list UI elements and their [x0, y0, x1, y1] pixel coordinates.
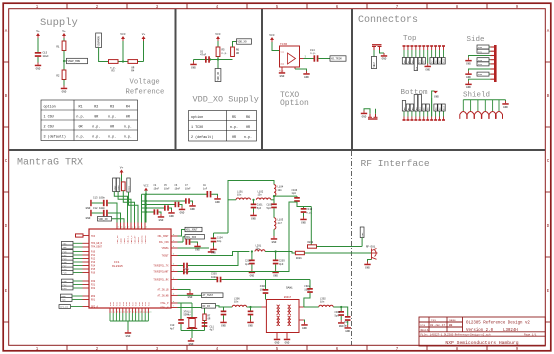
- svg-text:P16: P16: [91, 272, 96, 275]
- wire V+ to R8: [121, 175, 123, 182]
- svg-text:VSSPA: VSSPA: [162, 247, 170, 250]
- net label J1: [371, 57, 376, 69]
- svg-text:n.p.: n.p.: [76, 135, 84, 139]
- label C104 10p: [217, 237, 223, 243]
- frame row letters: [5, 30, 550, 294]
- net label XOL_XOUT: [185, 227, 202, 231]
- wire C5 to gnd: [169, 208, 172, 210]
- IC right pin names: [153, 233, 175, 310]
- label L302: [320, 297, 326, 303]
- SAW pin stubs: [262, 307, 304, 337]
- ground divider branch: [61, 86, 67, 94]
- wire nodeA right: [274, 195, 297, 197]
- wire C8 to gnd: [212, 194, 218, 196]
- wire C110 node down: [310, 207, 312, 247]
- svg-text:RX1: RX1: [91, 299, 96, 302]
- wire vlabel2 to pin: [118, 192, 131, 223]
- power VCC tcxo: [269, 34, 275, 42]
- capacitor C304: [221, 311, 227, 316]
- label L103: [278, 219, 284, 225]
- wire C101 drop: [253, 200, 255, 204]
- svg-text:47nF: 47nF: [200, 54, 207, 57]
- ground SAW left: [274, 337, 280, 345]
- svg-text:55MHz: 55MHz: [184, 314, 192, 317]
- SAW transformer left: [277, 305, 281, 326]
- wire C103 to node: [297, 202, 311, 207]
- title block text: [420, 319, 537, 346]
- svg-text:10nF: 10nF: [185, 187, 191, 190]
- ground vddxo: [190, 62, 196, 70]
- label C10: [170, 324, 175, 330]
- svg-text:GND: GND: [304, 76, 309, 79]
- svg-text:GND: GND: [466, 63, 471, 66]
- node vref mid: [122, 60, 124, 62]
- ground C309: [345, 325, 351, 333]
- wire rail drop 2: [144, 194, 146, 222]
- node A rf: [273, 195, 275, 197]
- svg-text:n.p.: n.p.: [307, 212, 313, 215]
- label C101: [257, 204, 263, 210]
- supply option table: [41, 100, 138, 141]
- wire J2 pin2: [375, 109, 377, 114]
- wire C301 top: [265, 280, 267, 290]
- svg-text:VCC: VCC: [143, 185, 148, 188]
- svg-text:VDDA: VDDA: [117, 185, 120, 191]
- wire vlabel3 to pin: [129, 192, 139, 223]
- svg-text:2: 2: [114, 311, 115, 314]
- ground tcxo 1: [279, 70, 285, 78]
- svg-text:V+: V+: [62, 30, 66, 33]
- ground J1: [381, 53, 387, 57]
- capacitor C201: [183, 263, 188, 269]
- svg-text:Reference: Reference: [126, 89, 165, 97]
- wire J2 to gnd: [364, 109, 370, 114]
- wire L201 to R201: [265, 251, 276, 253]
- wire C103 down: [296, 195, 298, 198]
- svg-text:IO4: IO4: [478, 63, 483, 66]
- wire C10 to bottom: [180, 324, 182, 331]
- wire R8 to pin: [123, 191, 134, 223]
- capacitor C6: [205, 56, 210, 62]
- wire C7 to gnd: [190, 201, 193, 203]
- node C308: [340, 306, 342, 308]
- svg-text:VDDD: VDDD: [128, 185, 131, 191]
- label R6 0R: [236, 49, 240, 55]
- label L102: [258, 190, 264, 196]
- svg-text:9: 9: [136, 311, 137, 314]
- ground C202: [249, 270, 255, 278]
- ground shield: [502, 101, 508, 109]
- svg-text:Voltage: Voltage: [130, 79, 160, 87]
- pin tcxo out stub: [300, 58, 304, 60]
- net labels SIDE: [477, 45, 489, 76]
- svg-text:Supply: Supply: [40, 17, 78, 29]
- svg-text:SAW1: SAW1: [286, 287, 293, 290]
- wire vddxo rail: [194, 59, 233, 61]
- svg-text:VDDVCO: VDDVCO: [144, 235, 147, 244]
- svg-text:GND: GND: [86, 217, 91, 220]
- wire decoupling rail top: [142, 193, 207, 195]
- svg-text:GND: GND: [251, 217, 256, 220]
- label XTAL1: [184, 310, 192, 316]
- svg-text:GND: GND: [503, 106, 508, 109]
- IC U1 OL2385 body: [89, 229, 171, 308]
- wire C302 top: [309, 280, 311, 289]
- wire L302 right: [333, 307, 348, 316]
- capacitor C10: [178, 319, 184, 324]
- pins SIDE teeth: [491, 47, 495, 79]
- ground SIDE row2: [465, 58, 471, 66]
- wire C4 to gnd: [159, 212, 162, 214]
- svg-text:XTAL_P: XTAL_P: [160, 302, 169, 305]
- svg-text:P22: P22: [91, 287, 96, 290]
- pin tcxo gnd1 stub: [281, 67, 283, 70]
- label C110: [307, 208, 313, 214]
- svg-text:P32: P32: [147, 301, 150, 306]
- wire node to label: [64, 60, 67, 62]
- wire C304 gnd: [223, 315, 225, 319]
- svg-text:NXP Semiconductors Hamburg: NXP Semiconductors Hamburg: [445, 340, 518, 346]
- wire V+ to R1: [63, 38, 65, 41]
- wire J1 pin1: [373, 50, 375, 57]
- svg-text:0R: 0R: [236, 52, 240, 55]
- ground C105: [194, 244, 200, 252]
- svg-text:1 TCXO: 1 TCXO: [191, 126, 203, 130]
- frame row ticks: [3, 62, 551, 322]
- wire TXVDDTGL_RX stub: [178, 279, 217, 281]
- svg-text:10n: 10n: [278, 189, 283, 192]
- svg-text:2 (default): 2 (default): [191, 135, 213, 140]
- resistor R4: [128, 60, 138, 64]
- resistor R202: [308, 245, 317, 248]
- svg-text:VCC: VCC: [269, 34, 275, 37]
- inductor L103: [274, 218, 276, 229]
- wire shield to gnd: [505, 100, 507, 101]
- resistor R8: [122, 182, 126, 191]
- power VCC arrow trx: [144, 188, 148, 191]
- svg-text:TXVDDTGL_TX: TXVDDTGL_TX: [153, 265, 169, 268]
- svg-text:1 CSU: 1 CSU: [44, 115, 54, 119]
- ground J2: [361, 111, 367, 119]
- svg-text:VSUPMON: VSUPMON: [98, 36, 101, 47]
- svg-text:R202: R202: [308, 241, 314, 244]
- wire crystal bottom: [191, 328, 193, 330]
- svg-text:R1: R1: [56, 46, 60, 49]
- capacitor C11: [202, 322, 208, 327]
- svg-text:n.p.: n.p.: [124, 135, 132, 139]
- connector RF-E01 coax: [372, 249, 378, 260]
- capacitor C14: [314, 55, 319, 61]
- svg-text:R2: R2: [56, 75, 60, 78]
- wire C105 to gnd: [191, 242, 198, 244]
- wire L101 line: [228, 199, 236, 201]
- SAW filter U2 body: [266, 300, 299, 333]
- net labels group E with wires: [59, 305, 83, 309]
- svg-text:IO1: IO1: [478, 50, 483, 53]
- svg-text:XO_TRIM: XO_TRIM: [331, 58, 342, 61]
- svg-text:GND: GND: [191, 66, 196, 69]
- net label VDD_IO: [98, 217, 112, 222]
- wire C101 to gnd: [253, 208, 255, 212]
- svg-text:GND: GND: [195, 248, 200, 251]
- label R3 n.p.: [110, 66, 116, 72]
- svg-text:n.p.: n.p.: [92, 135, 100, 139]
- svg-text:GND: GND: [302, 327, 307, 330]
- svg-text:XOL_XIN: XOL_XIN: [159, 241, 169, 244]
- connector BOTTOM header: [403, 117, 446, 121]
- capacitor C101: [251, 204, 257, 209]
- svg-text:RF-E01: RF-E01: [366, 245, 376, 248]
- svg-text:GND: GND: [215, 201, 220, 204]
- svg-text:n.p.: n.p.: [244, 136, 252, 140]
- svg-text:5p6: 5p6: [257, 207, 262, 210]
- svg-text:C12 100n: C12 100n: [93, 207, 106, 210]
- svg-text:P25: P25: [63, 272, 68, 275]
- power V+ divider branch: [62, 30, 66, 38]
- ground xtal: [188, 338, 194, 346]
- label C308: [335, 311, 341, 317]
- ground C104: [210, 247, 216, 255]
- svg-text:TXVDDTGL_RX: TXVDDTGL_RX: [153, 279, 169, 282]
- svg-text:Version 2.0: Version 2.0: [466, 328, 494, 333]
- net labels group A with wires: [62, 241, 83, 249]
- svg-text:R6: R6: [246, 116, 250, 120]
- wire R6 to label: [233, 42, 237, 48]
- svg-text:TX0: TX0: [62, 299, 67, 302]
- svg-text:10n: 10n: [237, 194, 242, 197]
- svg-text:SPI_A: SPI_A: [91, 306, 99, 309]
- svg-text:RF Interface: RF Interface: [361, 158, 430, 169]
- ground L103: [271, 236, 277, 244]
- svg-text:5p6: 5p6: [267, 207, 272, 210]
- svg-text:15n: 15n: [258, 194, 263, 197]
- wire xtal bottom: [181, 330, 205, 332]
- node C202: [251, 250, 253, 252]
- label L201: [256, 244, 262, 250]
- resistor R1: [62, 41, 66, 51]
- wire XTAL_P: [178, 303, 182, 319]
- svg-text:0R: 0R: [94, 115, 98, 119]
- wire rail C7: [142, 200, 186, 202]
- svg-text:n.p.: n.p.: [124, 125, 132, 129]
- wire SAW out low: [303, 320, 306, 322]
- wire coax gnd: [368, 260, 372, 262]
- svg-text:GND: GND: [180, 211, 185, 214]
- svg-text:GND: GND: [365, 266, 370, 269]
- ground SIDE row5: [465, 71, 471, 79]
- connector TOP header: [403, 46, 446, 50]
- svg-text:GND: GND: [86, 207, 91, 210]
- wire V+ to C15: [37, 38, 39, 52]
- capacitor C12: [103, 210, 108, 216]
- svg-text:GND: GND: [272, 241, 277, 244]
- capacitor C13: [103, 200, 108, 206]
- wire node down: [217, 60, 219, 69]
- svg-text:XOL_XOUT: XOL_XOUT: [186, 229, 198, 232]
- svg-text:R2: R2: [94, 105, 98, 109]
- node vddxo: [217, 58, 219, 60]
- svg-text:4n7: 4n7: [278, 222, 283, 225]
- ground coax: [364, 262, 370, 270]
- power VCC vref: [120, 33, 126, 41]
- svg-text:VDD_IO: VDD_IO: [99, 218, 109, 221]
- svg-text:TPA_DOUT: TPA_DOUT: [91, 246, 103, 249]
- svg-text:GND: GND: [425, 68, 430, 71]
- label C302: [304, 285, 310, 291]
- net label VSUP_MON vertical: [96, 33, 102, 48]
- node divider mid: [63, 60, 65, 62]
- wire C13 to pin: [108, 203, 117, 223]
- svg-text:R201: R201: [296, 257, 302, 260]
- label C201: [183, 268, 189, 274]
- wire C309 gnd: [347, 321, 349, 325]
- svg-text:Top: Top: [403, 35, 417, 43]
- net label RF antenna: [360, 227, 364, 238]
- wire R11 to pin: [83, 235, 89, 237]
- net labels BOTTOM: [402, 95, 445, 112]
- wire xtal gnd drop: [191, 331, 193, 339]
- node VCC rail C6: [145, 203, 147, 205]
- inductor L201: [255, 250, 265, 252]
- wire C306 link: [250, 307, 252, 311]
- wire shield bus: [463, 99, 505, 101]
- wire rail C6: [142, 204, 175, 206]
- svg-text:12: 12: [146, 311, 148, 314]
- section divider trx/rf dash-dot: [351, 151, 353, 345]
- net label VCC vertical 3: [127, 178, 131, 192]
- svg-text:7: 7: [130, 311, 131, 314]
- IC top pin names: [116, 226, 148, 244]
- capacitor C202: [249, 260, 255, 265]
- ground C13: [86, 200, 92, 210]
- svg-text:VBAT: VBAT: [113, 185, 116, 191]
- label C11: [210, 325, 215, 331]
- inductor L101: [236, 198, 250, 200]
- svg-text:1nF: 1nF: [203, 187, 208, 190]
- label C7 10nF: [185, 184, 191, 190]
- ground C5: [168, 210, 174, 218]
- wire C12 to pin: [108, 213, 121, 223]
- wire TXVDDTGL_TX stub: [178, 265, 184, 267]
- crystal Q1: [187, 303, 197, 328]
- wire C306 gnd: [250, 315, 252, 319]
- svg-text:GND: GND: [190, 208, 195, 211]
- wire XTAL_N: [178, 308, 205, 315]
- svg-text:0R: 0R: [246, 126, 250, 130]
- svg-text:VDD_XO: VDD_XO: [217, 71, 220, 80]
- net label VBAT vertical 1: [113, 178, 117, 192]
- label C5 10nF: [164, 184, 170, 190]
- svg-text:rev: rev: [431, 319, 436, 322]
- ground VSSPA: [208, 249, 214, 253]
- svg-text:n.p.: n.p.: [222, 52, 228, 55]
- svg-text:10p: 10p: [217, 240, 222, 243]
- label R7 0R: [208, 314, 211, 320]
- wire R2 to GND: [63, 80, 65, 86]
- svg-text:GND: GND: [285, 341, 290, 344]
- wire xtal top link: [181, 302, 192, 304]
- label C102: [267, 204, 273, 210]
- ground C203: [272, 270, 278, 278]
- wire L306 to SAW: [247, 306, 262, 308]
- IC left pin names: [91, 235, 103, 309]
- label C303: [211, 273, 217, 279]
- svg-text:10n: 10n: [256, 248, 261, 251]
- ground C306: [247, 320, 253, 328]
- net labels TOP: [402, 58, 445, 71]
- svg-text:1p0: 1p0: [292, 192, 297, 195]
- svg-text:R3: R3: [111, 70, 115, 73]
- net labels group D with wires: [61, 294, 83, 301]
- wire C110 top: [303, 207, 305, 209]
- label L306: [234, 297, 240, 303]
- node VCC rail C7: [145, 200, 147, 202]
- wire AT_IN_LB to gnd: [178, 290, 191, 292]
- svg-text:n.p.: n.p.: [230, 126, 238, 130]
- wire C304 link: [223, 307, 225, 311]
- svg-text:n.p.: n.p.: [108, 135, 116, 139]
- svg-text:n.p.: n.p.: [76, 115, 84, 119]
- wire VCC to R5: [217, 41, 219, 47]
- ground AT_IN_LB: [187, 291, 193, 299]
- wire rail drop 1: [141, 194, 143, 222]
- capacitor C303: [217, 277, 222, 283]
- svg-text:3p9: 3p9: [279, 263, 284, 266]
- net label RFIO: [202, 304, 216, 309]
- svg-text:0R: 0R: [110, 125, 114, 129]
- connector SIDE header: [494, 45, 497, 82]
- svg-text:GND: GND: [248, 324, 253, 327]
- capacitor C106: [183, 269, 188, 275]
- wire rail to GND: [193, 60, 195, 62]
- svg-text:GND: GND: [211, 251, 216, 254]
- svg-text:BB: BB: [449, 324, 453, 327]
- capacitor C8: [207, 191, 212, 197]
- wire C14 to label: [319, 58, 331, 60]
- wire tcxo gnd2: [295, 69, 307, 71]
- section divider horizontal: [9, 149, 545, 151]
- svg-text:GND: GND: [382, 58, 387, 61]
- wire vlabel1 to pin: [114, 192, 127, 223]
- svg-text:C13 100n: C13 100n: [93, 196, 106, 199]
- wire R5 to rail: [217, 57, 219, 60]
- wire tcxo out: [304, 58, 314, 60]
- label C6 47nF: [200, 50, 207, 56]
- label C4 10nF: [154, 184, 160, 190]
- resistor R7: [203, 314, 206, 321]
- svg-text:VBAT: VBAT: [373, 61, 376, 67]
- wire C104 top: [213, 233, 215, 238]
- wire vref VCC: [122, 41, 124, 62]
- svg-text:TCK: TCK: [63, 246, 68, 249]
- label C15 10uF: [43, 52, 50, 58]
- wire C301 bottom: [265, 294, 267, 300]
- capacitor C105: [186, 239, 191, 245]
- svg-text:0R: 0R: [126, 115, 130, 119]
- wire C203 drop: [275, 252, 277, 260]
- svg-text:VCC: VCC: [120, 33, 126, 36]
- ground C101: [250, 213, 256, 221]
- vddxo option table: [189, 111, 257, 142]
- shield fingers: [460, 112, 503, 119]
- svg-text:R3: R3: [110, 105, 114, 109]
- svg-text:GND: GND: [273, 274, 278, 277]
- ground SAW right: [284, 337, 290, 345]
- capacitor C309: [345, 316, 351, 321]
- wire gnd to C12: [92, 212, 103, 214]
- capacitor C308: [338, 311, 344, 316]
- svg-text:OL2385 Reference Design v2: OL2385 Reference Design v2: [466, 320, 530, 325]
